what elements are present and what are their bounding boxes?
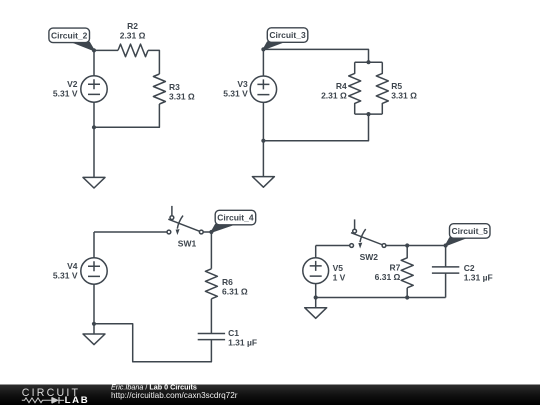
svg-text:Circuit_4: Circuit_4 (217, 213, 254, 223)
svg-text:5.31 V: 5.31 V (223, 89, 248, 99)
wire R6 to C1 (210, 299, 212, 334)
flag box Circuit_2 (49, 28, 90, 42)
wire junction to ground (93, 324, 95, 334)
svg-text:5.31 V: 5.31 V (53, 270, 78, 280)
wire R3 to bottom (94, 104, 159, 127)
svg-text:3.31 Ω: 3.31 Ω (169, 92, 195, 102)
svg-text:Circuit_2: Circuit_2 (51, 30, 88, 40)
svg-text:1 V: 1 V (333, 273, 346, 283)
wire parallel to bottom (263, 114, 368, 141)
resistor R4 (349, 62, 361, 114)
bottom wire (316, 297, 446, 299)
node dot Circuit_2 (92, 48, 96, 52)
wire V4 top to switch (94, 231, 167, 233)
switch SW1 (167, 206, 203, 235)
junction dot V5 (314, 295, 318, 299)
flag box Circuit_5 (450, 224, 491, 239)
ground (252, 177, 274, 188)
wire junction to ground (262, 141, 264, 177)
flag wedge Circuit_5 (446, 238, 466, 246)
footer text (111, 383, 238, 401)
resistor R5 (376, 62, 388, 114)
junction dot R7 bottom (405, 295, 409, 299)
dot parallel bottom (366, 112, 370, 116)
svg-text:5.31 V: 5.31 V (53, 88, 78, 98)
flag wedge Circuit_2 (73, 42, 94, 50)
flag wedge Circuit_4 (211, 224, 233, 232)
wire switch to node (386, 246, 446, 267)
parallel bottom bar (355, 113, 383, 115)
junction dot (92, 125, 96, 129)
resistor R7 (401, 246, 413, 288)
ground (83, 177, 105, 188)
svg-text:SW1: SW1 (178, 238, 197, 248)
wire node to V3 (262, 49, 264, 76)
resistor R3 (153, 74, 165, 104)
wire node to V2 (93, 50, 95, 75)
wire R7 bottom (406, 288, 408, 298)
flag box Circuit_3 (267, 28, 308, 43)
svg-text:LAB: LAB (65, 395, 90, 405)
svg-text:SW2: SW2 (360, 252, 379, 262)
svg-text:C1: C1 (228, 328, 239, 338)
svg-text:2.31 Ω: 2.31 Ω (321, 90, 347, 100)
switch SW2 (350, 219, 386, 248)
resistor R6 (205, 269, 217, 299)
wire node to R2 (94, 49, 118, 51)
wire C2 bottom (445, 273, 447, 297)
wire switch to node (203, 232, 211, 269)
parallel top bar (355, 61, 383, 63)
svg-text:1.31 µF: 1.31 µF (228, 338, 257, 348)
svg-text:V5: V5 (333, 263, 344, 273)
junction dot (92, 322, 96, 326)
junction dot R7 top (405, 243, 409, 247)
voltage source V4 (81, 258, 107, 284)
flag box Circuit_4 (215, 210, 256, 225)
wire junction to C1 bottom (94, 324, 211, 362)
node dot Circuit_3 (261, 47, 265, 51)
CircuitLab logo (22, 387, 90, 405)
svg-text:C2: C2 (464, 263, 475, 273)
wire junction to ground (315, 298, 317, 308)
wire V4 vertical (93, 232, 95, 258)
wire R2 to corner (148, 50, 159, 74)
wire V5 to junction (315, 284, 317, 298)
voltage source V3 (250, 76, 276, 102)
svg-text:2.31 Ω: 2.31 Ω (120, 30, 146, 40)
svg-text:6.31 Ω: 6.31 Ω (375, 272, 401, 282)
capacitor C2 (432, 267, 459, 273)
svg-text:http://circuitlab.com/caxn3scd: http://circuitlab.com/caxn3scdrq72r (111, 391, 238, 400)
wire V5 vertical (315, 246, 317, 259)
ground (83, 334, 105, 345)
svg-text:R7: R7 (390, 263, 401, 273)
dot parallel top (366, 60, 370, 64)
svg-text:Circuit_5: Circuit_5 (452, 226, 489, 236)
flag wedge Circuit_3 (263, 42, 283, 49)
wire junction to ground (93, 127, 95, 177)
capacitor C1 (198, 334, 225, 340)
svg-text:6.31 Ω: 6.31 Ω (222, 286, 248, 296)
wire V3 to junction (262, 102, 264, 140)
wire V2 to junction (93, 102, 95, 127)
wire node to corner (263, 49, 368, 62)
node dot Circuit_5 (444, 243, 448, 247)
junction dot (261, 139, 265, 143)
node dot Circuit_4 (209, 230, 213, 234)
svg-text:1.31 µF: 1.31 µF (464, 272, 493, 282)
voltage source V2 (81, 76, 107, 102)
wire V4 to junction (93, 284, 95, 324)
ground (305, 308, 327, 319)
svg-text:Circuit_3: Circuit_3 (269, 30, 306, 40)
voltage source V5 (303, 258, 329, 284)
wire V5 top to switch (316, 245, 350, 247)
svg-text:3.31 Ω: 3.31 Ω (391, 90, 417, 100)
resistor R2 (118, 44, 148, 57)
